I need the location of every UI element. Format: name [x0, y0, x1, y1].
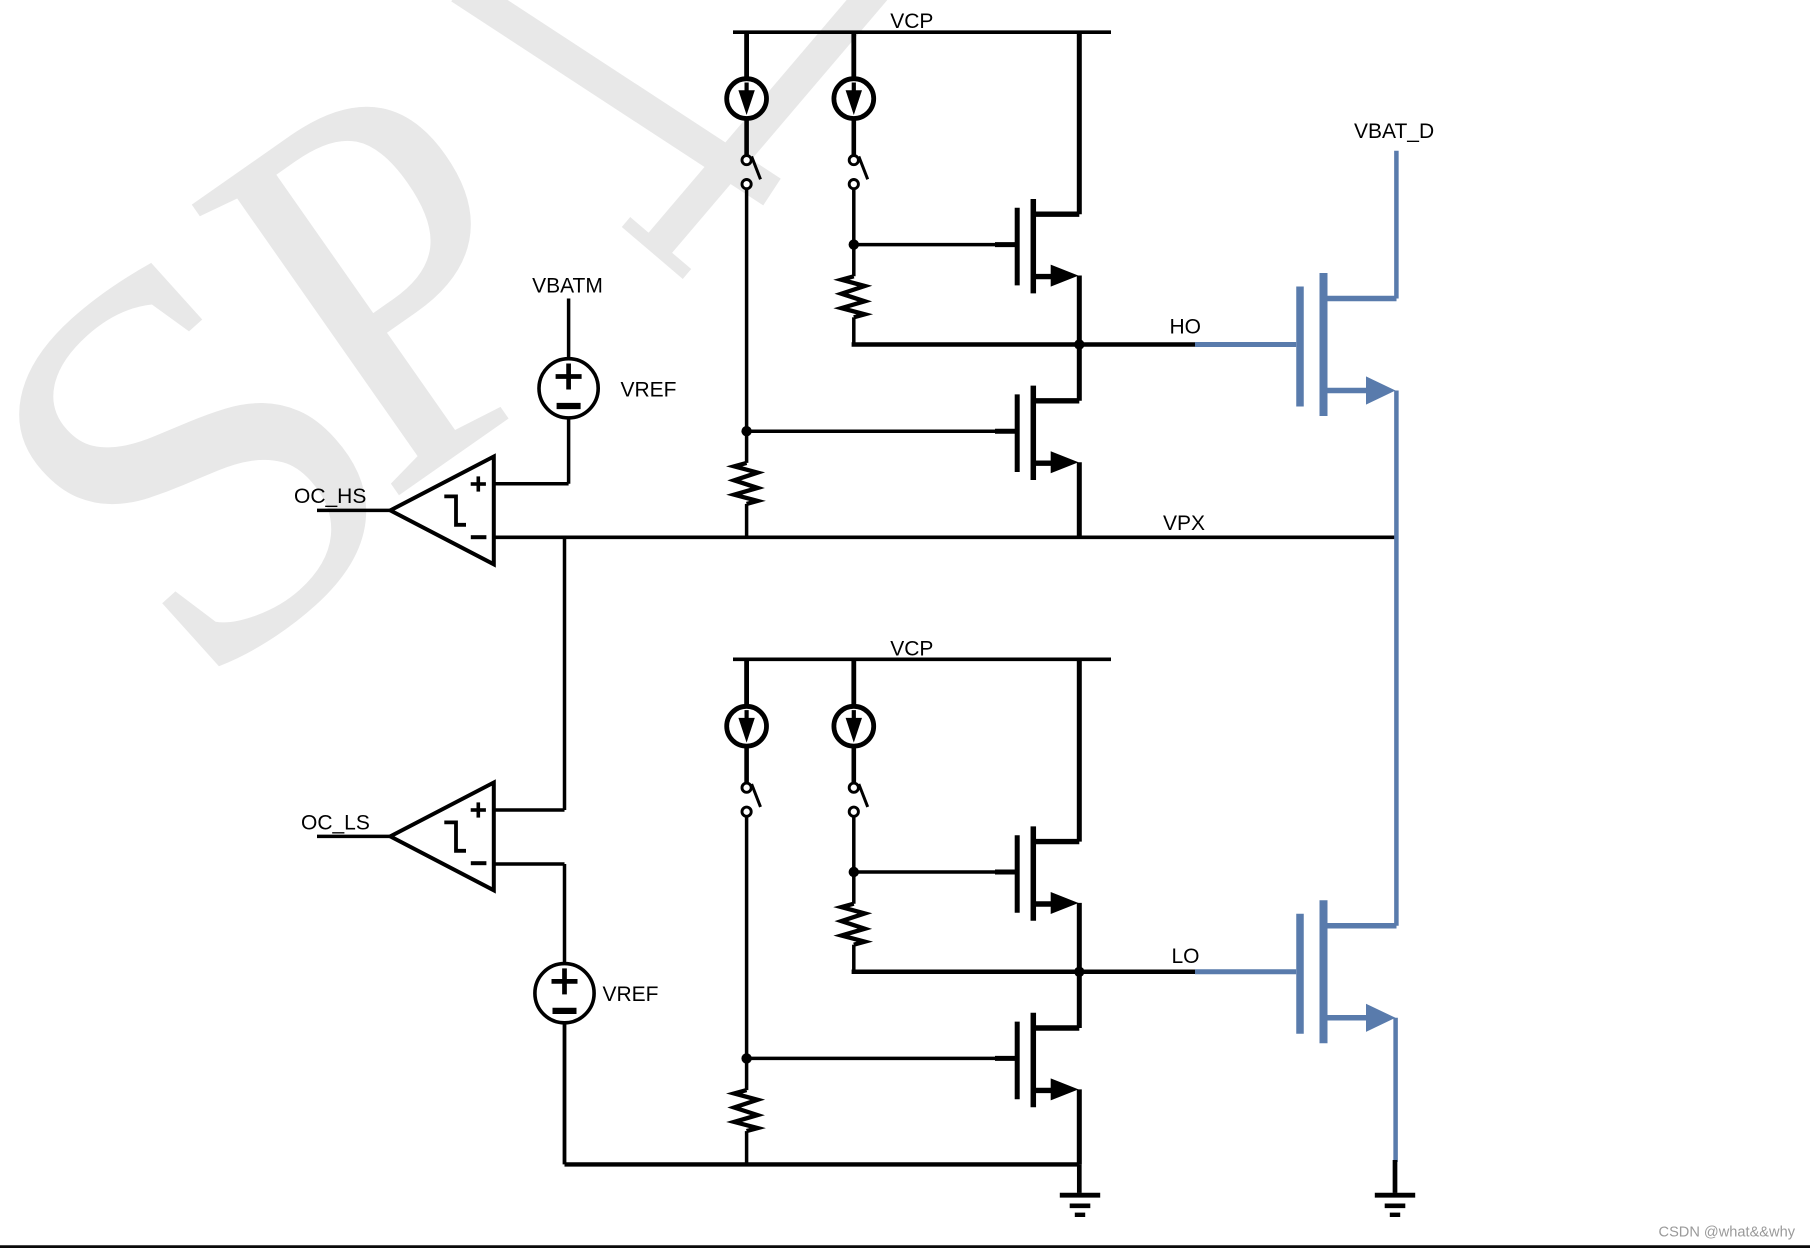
- svg-text:VPX: VPX: [1163, 512, 1205, 535]
- svg-text:LO: LO: [1171, 945, 1199, 968]
- svg-text:VREF: VREF: [603, 983, 659, 1006]
- svg-text:CSDN @what&&why: CSDN @what&&why: [1659, 1225, 1796, 1241]
- svg-text:VBATM: VBATM: [532, 275, 603, 298]
- svg-text:VCP: VCP: [890, 10, 933, 33]
- svg-text:OC_LS: OC_LS: [301, 812, 370, 835]
- svg-text:OC_HS: OC_HS: [294, 485, 366, 508]
- svg-text:VCP: VCP: [890, 638, 933, 661]
- svg-text:HO: HO: [1170, 316, 1202, 339]
- svg-text:VBAT_D: VBAT_D: [1354, 120, 1434, 143]
- svg-text:VREF: VREF: [621, 379, 677, 402]
